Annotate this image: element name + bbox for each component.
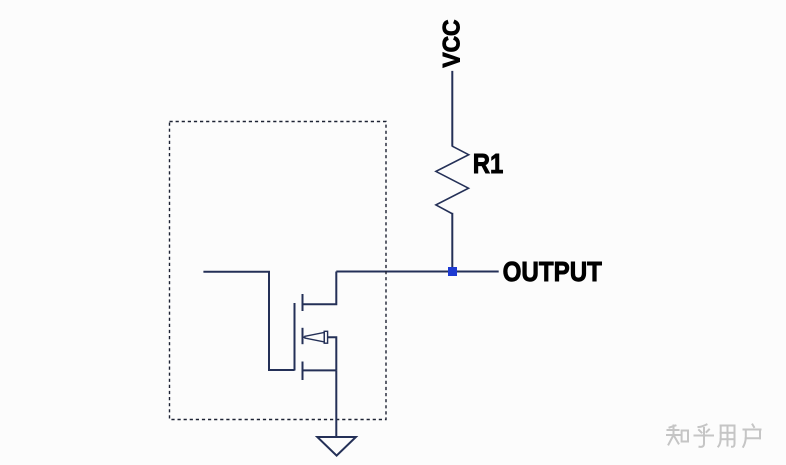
svg-text:OUTPUT: OUTPUT [503,256,602,288]
node junction [448,267,457,276]
wire source stub [303,369,337,371]
transistor Q1 channel drain segment [302,294,304,311]
svg-text:VCC: VCC [438,19,465,67]
用 [718,426,734,447]
wire gate input [203,272,294,370]
wire output horizontal [336,271,498,273]
watermark 知乎用户 [667,425,761,447]
乎 [695,425,714,447]
transistor Q1 body arrow [303,336,306,338]
transistor Q1 channel middle segment [302,328,304,344]
svg-text:R1: R1 [473,150,504,180]
wire body stub [328,337,337,370]
知 [667,426,688,445]
户 [743,425,760,447]
ground [317,437,356,456]
wire drain stub [303,272,337,305]
wire resistor to node [451,213,453,272]
resistor R1 [436,146,469,214]
dashed box [170,122,387,420]
wire VCC to resistor [451,71,453,146]
transistor Q1 channel source segment [302,362,304,381]
transistor Q1 gate bar [294,303,296,371]
wire source to ground [335,370,337,437]
